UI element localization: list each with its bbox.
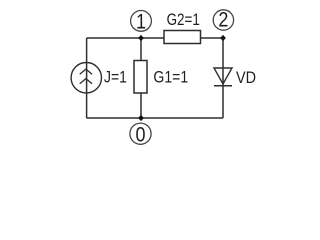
- svg-text:0: 0: [136, 124, 146, 147]
- svg-text:G1=1: G1=1: [153, 67, 188, 86]
- svg-text:VD: VD: [236, 68, 256, 87]
- svg-text:1: 1: [136, 11, 146, 34]
- svg-text:J=1: J=1: [104, 68, 127, 87]
- svg-text:G2=1: G2=1: [167, 10, 200, 29]
- svg-text:2: 2: [218, 9, 228, 32]
